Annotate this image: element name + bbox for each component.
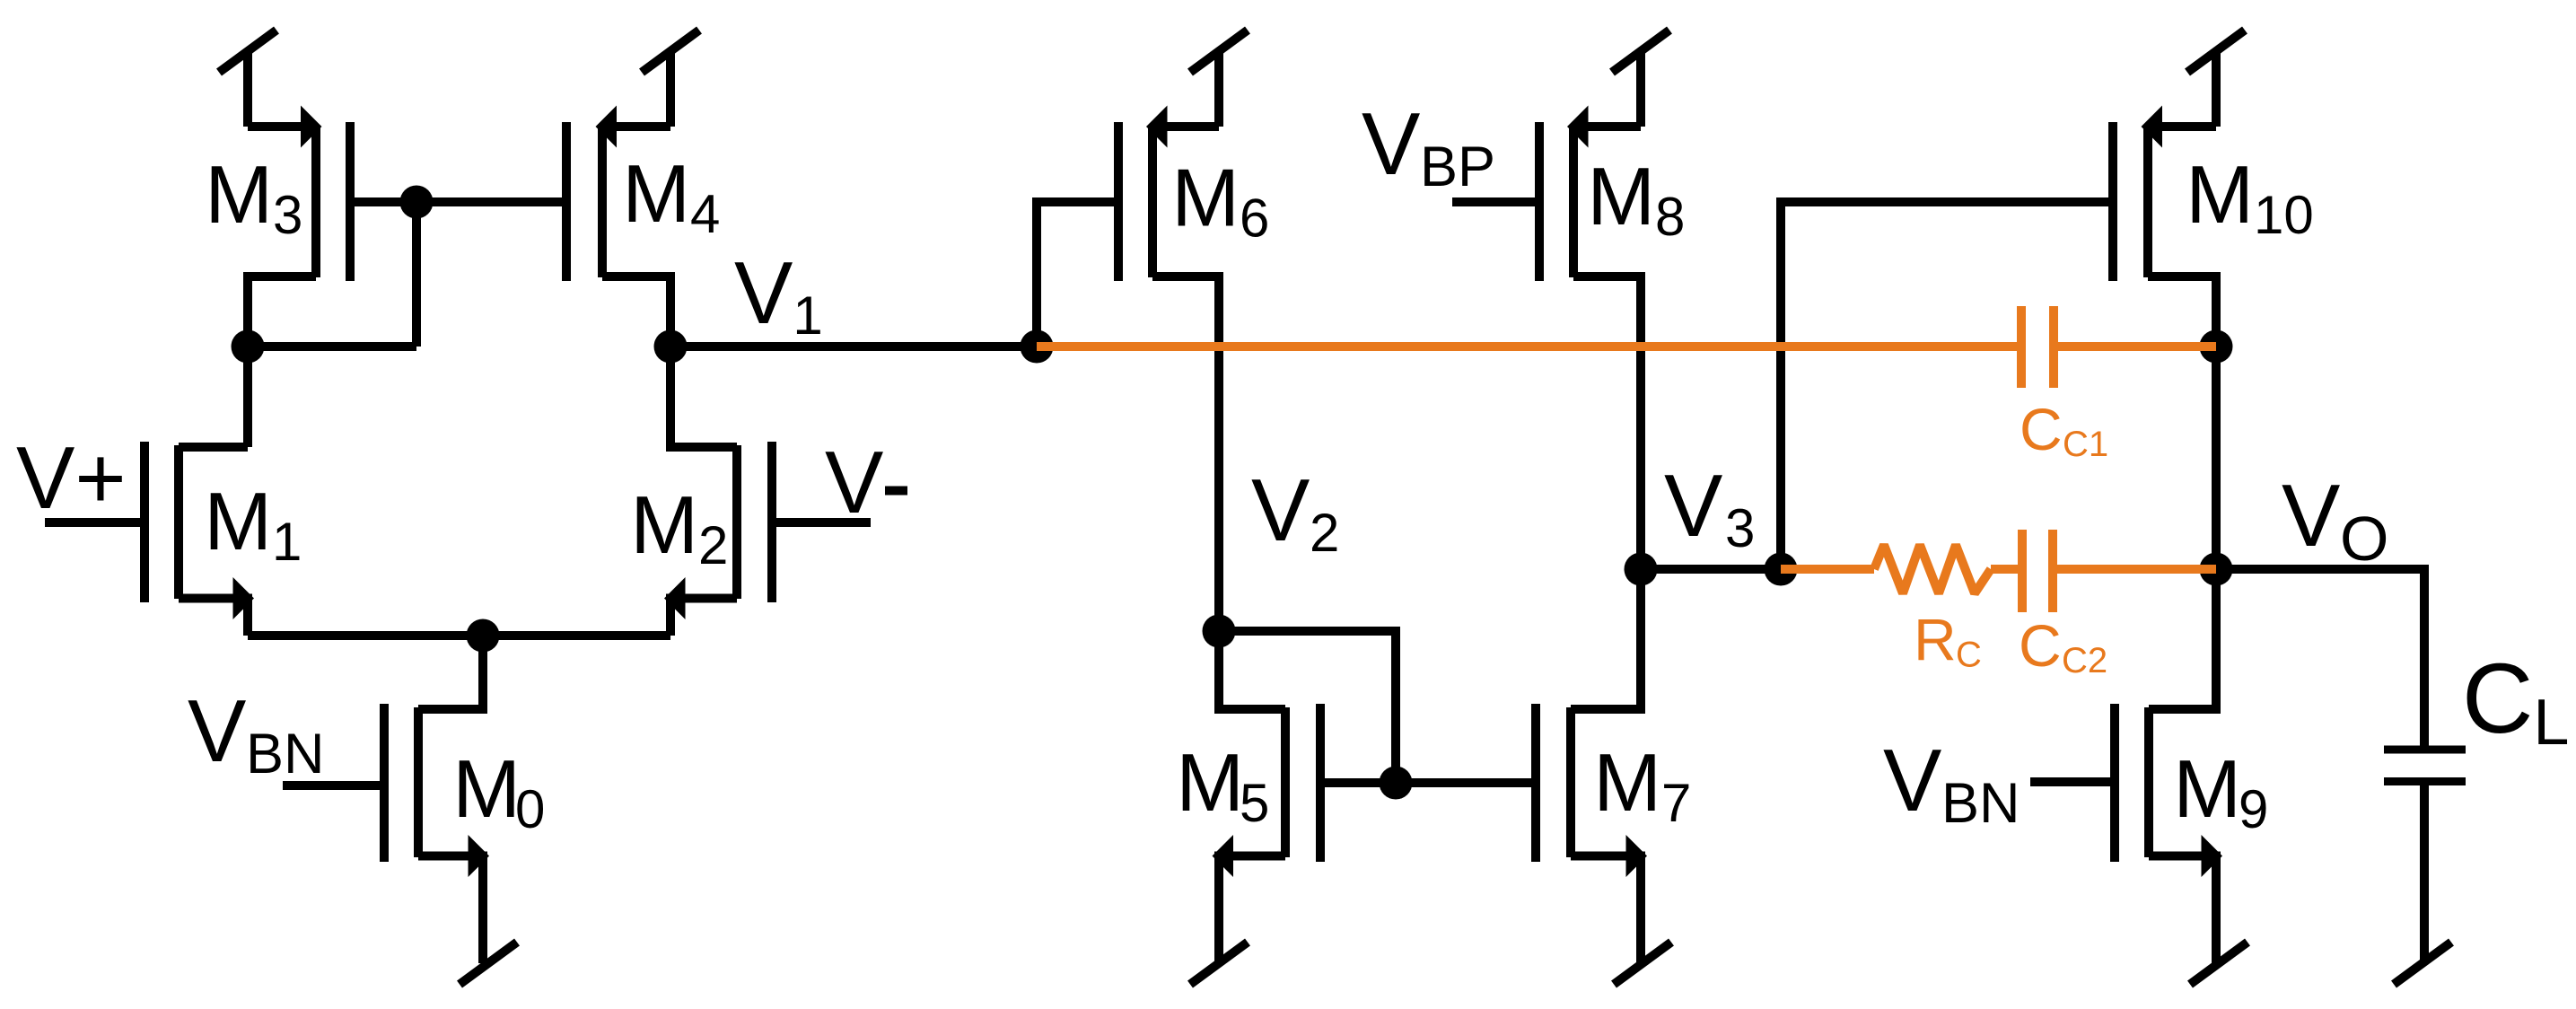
label RC [1914, 607, 1982, 675]
power supply VDD (M3) [219, 31, 276, 127]
svg-text:R: R [1914, 607, 1957, 673]
label V1 [734, 243, 823, 346]
wire: tail node (M1/M2 sources) [248, 631, 670, 640]
wire: V1 net to CC1 (orange) [1037, 342, 2021, 351]
bias VBN gate lead (M0) [283, 781, 384, 790]
wire: mirror node horizontal (M3 drain to gate drop) [248, 342, 416, 351]
svg-text:L: L [2533, 687, 2569, 759]
power supply VDD (M6) [1190, 31, 1248, 127]
svg-text:V: V [188, 681, 246, 780]
label M0 [452, 744, 545, 839]
svg-text:V: V [1362, 94, 1420, 193]
transistor M2 [664, 347, 772, 636]
power supply VDD (M4) [642, 31, 699, 127]
svg-text:1: 1 [272, 512, 302, 572]
capacitor CL [2384, 750, 2466, 782]
ground (M7) [1614, 943, 1671, 985]
svg-text:V: V [1883, 731, 1941, 829]
svg-text:C: C [2019, 612, 2062, 679]
svg-text:V: V [1251, 461, 1310, 559]
bias VBP gate lead (M8) [1452, 197, 1539, 206]
svg-text:M: M [2173, 744, 2241, 835]
label V- [825, 433, 907, 531]
wire: V3 to RC (orange) [1781, 565, 1874, 574]
svg-text:1: 1 [793, 285, 822, 346]
svg-text:7: 7 [1661, 773, 1691, 833]
label M5 [1176, 738, 1269, 833]
label M1 [204, 477, 302, 572]
wire: RC to CC2 (orange) [1991, 565, 2022, 574]
node: V1 junction dot (M4 drain) [654, 330, 688, 364]
wire: M3/M4 gate bus [350, 197, 566, 206]
svg-text:C2: C2 [2062, 641, 2107, 680]
node: VO output junction dot [2200, 553, 2233, 586]
svg-text:4: 4 [690, 184, 720, 244]
power supply VDD (M8) [1612, 31, 1669, 127]
node: V3 junction dot (M8/M7 drains) [1625, 553, 1658, 586]
svg-text:M: M [1171, 154, 1240, 244]
label M8 [1587, 152, 1685, 247]
node: V3 to M10 gate junction dot [1765, 553, 1798, 586]
wire: VO to CL [2216, 569, 2424, 746]
transistor M0 (tail current source) [384, 636, 489, 963]
label VBN (left) [188, 681, 325, 785]
wire: CC2 to output node (orange) [2053, 565, 2216, 574]
wire: M10 drain to output node [2212, 347, 2221, 569]
wire: V1 net [670, 342, 1037, 351]
svg-text:2: 2 [698, 515, 728, 575]
wire: M3 drain down to M1 drain [243, 347, 252, 447]
svg-text:C: C [2462, 644, 2533, 754]
ground (M0) [460, 943, 517, 985]
svg-text:M: M [1593, 738, 1661, 829]
svg-text:M: M [1587, 152, 1655, 242]
label VBP [1362, 94, 1495, 198]
wire: M5/M7 gate bus [1320, 778, 1536, 787]
transistor M6 [1037, 106, 1219, 632]
svg-text:C: C [1956, 636, 1982, 675]
label V3 [1664, 456, 1755, 558]
transistor M4 [566, 106, 670, 347]
transistor M10 [2113, 106, 2216, 347]
bias VBN gate lead (M9) [2030, 777, 2115, 786]
label M2 [630, 480, 728, 575]
svg-text:M: M [622, 149, 690, 240]
svg-text:2: 2 [1310, 503, 1339, 563]
svg-text:M: M [2186, 150, 2254, 241]
label M3 [205, 150, 302, 245]
svg-text:M: M [452, 744, 521, 835]
node: M10 drain / CC1 junction dot [2200, 330, 2233, 364]
svg-text:O: O [2340, 504, 2388, 574]
svg-text:BN: BN [246, 723, 325, 785]
transistor M7 [1536, 569, 1647, 963]
node: M5/M7 gate junction dot [1380, 767, 1413, 800]
input V+ gate lead [45, 518, 145, 527]
wire: CL to ground [2420, 785, 2429, 963]
capacitor CC1 [2021, 306, 2054, 388]
label M9 [2173, 744, 2268, 839]
wire: diode connection (gate node down) [412, 202, 421, 347]
ground (CL) [2394, 943, 2451, 985]
label M7 [1593, 738, 1691, 833]
svg-text:M: M [1176, 738, 1244, 829]
wire: CC1 to output node (orange) [2054, 342, 2216, 351]
svg-text:C: C [2020, 396, 2063, 462]
svg-text:6: 6 [1240, 189, 1269, 249]
wire: V3 node [1641, 565, 1781, 574]
svg-text:C1: C1 [2063, 425, 2108, 464]
transistor M5 [1213, 631, 1321, 963]
transistor M1 [145, 442, 254, 636]
wire: V2 to M5/M7 gates [1219, 631, 1396, 783]
svg-text:BN: BN [1941, 772, 2020, 835]
input V- gate lead [772, 518, 871, 527]
label VO [2282, 466, 2388, 574]
label VBN (right) [1883, 731, 2020, 835]
wire: V3 up to M10 gate [1781, 202, 2113, 569]
resistor RC [1874, 545, 1991, 593]
svg-text:V: V [2282, 466, 2340, 565]
node: V2 junction dot [1203, 615, 1236, 648]
label CC2 [2019, 612, 2107, 680]
svg-text:5: 5 [1240, 773, 1269, 833]
svg-text:M: M [205, 150, 273, 241]
ground (M5) [1190, 943, 1248, 985]
transistor M9 [2115, 569, 2222, 963]
svg-text:M: M [204, 477, 272, 567]
power supply VDD (M10) [2187, 31, 2245, 127]
label V+ [16, 428, 127, 527]
svg-text:3: 3 [1725, 498, 1755, 558]
svg-text:V+: V+ [16, 428, 127, 527]
capacitor CC2 [2022, 530, 2053, 612]
svg-text:M: M [630, 480, 698, 571]
svg-text:V: V [1664, 456, 1722, 555]
svg-text:V: V [734, 243, 793, 342]
node: M3 drain junction dot [232, 330, 265, 364]
transistor M8 [1539, 106, 1641, 570]
svg-text:9: 9 [2239, 779, 2268, 839]
node: V1 to M6 gate junction dot [1021, 330, 1054, 364]
svg-text:10: 10 [2254, 185, 2314, 245]
svg-text:8: 8 [1655, 187, 1685, 247]
svg-text:V: V [825, 433, 883, 531]
label V2 [1251, 461, 1339, 563]
node: tail junction dot [467, 619, 500, 653]
transistor M3 [248, 106, 350, 347]
label CL [2462, 644, 2569, 759]
ground (M9) [2190, 943, 2247, 985]
label M4 [622, 149, 720, 244]
label M10 [2186, 150, 2313, 245]
label M6 [1171, 154, 1269, 249]
svg-text:3: 3 [273, 185, 302, 245]
label CC1 [2020, 396, 2108, 464]
svg-text:0: 0 [515, 779, 545, 839]
svg-text:BP: BP [1420, 136, 1495, 198]
node: gate-mirror junction dot [400, 186, 434, 219]
